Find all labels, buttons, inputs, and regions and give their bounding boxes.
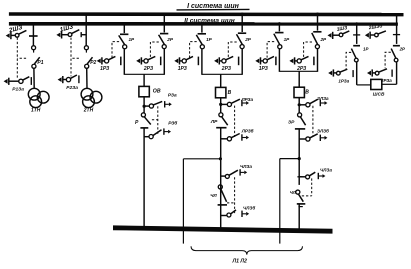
- wire bus II (2nd busbar system): [9, 22, 398, 26]
- junction tick 1ТН bay: [29, 35, 38, 37]
- wire OV bay left drop from bus II: [123, 23, 125, 33]
- earthing switch 1РЗ blade (OV bay): [109, 56, 116, 59]
- svg-text:2РЗ: 2РЗ: [221, 66, 232, 72]
- contact bar OV bay disconnector 1Р: [120, 33, 128, 35]
- wire OV bay join: [124, 73, 164, 75]
- wire line bay L1 to breaker: [220, 74, 222, 87]
- earthing switch ЛРЗа pivot: [227, 102, 231, 106]
- svg-text:ЛРЗб: ЛРЗб: [241, 127, 254, 133]
- ground 2РЗ (OV bay): [136, 59, 140, 64]
- svg-text:ЛРЗа: ЛРЗа: [241, 97, 254, 102]
- svg-text:Р2За: Р2За: [66, 85, 78, 91]
- wire line bay L1 left drop from bus II: [201, 23, 203, 32]
- earthing switch Р1За blade: [23, 77, 30, 80]
- wire 2РЗ ground to pivot (line bay L1): [219, 60, 222, 62]
- wire OV bay to breaker: [143, 74, 145, 86]
- node ЛРЗа junction: [219, 103, 222, 106]
- earthing switch ЗЛЗа blade: [310, 99, 318, 104]
- node OV ES1 junction: [143, 105, 146, 108]
- wire OV bay left lower: [123, 49, 125, 75]
- junction tick ЧЛЗа-2: [297, 176, 302, 178]
- wire 1ШЗ ground to pivot: [62, 34, 68, 36]
- disconnector Р2 blade: [87, 57, 92, 64]
- wire interlock dash 2Р (line bay L2): [304, 42, 312, 58]
- earthing switch РЗа blade: [153, 101, 162, 105]
- wire 1ТН bay drop from bus II: [32, 23, 34, 45]
- wire interlock dash 2ТН bay vertical: [70, 38, 72, 77]
- ground 1ШЗ (ShSV): [328, 33, 332, 38]
- node ЗЛЗа junction: [298, 103, 301, 106]
- earthing switch 1РЗ pivot (line bay L1): [182, 59, 186, 63]
- wire ЛРЗа junction to pivot: [221, 103, 228, 105]
- wire interlock dash 1Р (OV bay): [112, 42, 119, 58]
- node L1 branch junction: [219, 157, 222, 160]
- svg-text:В: В: [228, 90, 232, 96]
- ground ЧЛЗа: [239, 169, 241, 175]
- contact bar ЗР: [295, 128, 305, 130]
- wire L1 chain upper: [220, 98, 222, 113]
- wire interlock dash ЧЛ-2 vertical: [311, 178, 313, 195]
- svg-text:ЗЛЗа: ЗЛЗа: [317, 96, 329, 101]
- earthing switch 1РЗа blade: [340, 69, 347, 72]
- earthing switch 1РЗ pivot (line bay L2): [263, 59, 267, 63]
- wire OV bay right lower: [163, 49, 165, 75]
- earthing switch ЛРЗб blade: [231, 134, 239, 138]
- wire line Л1 outgoing: [182, 159, 184, 244]
- disconnector 1Р blade (OV bay): [119, 35, 125, 44]
- circuit breaker ШСВ: [371, 79, 382, 89]
- ground ЧЛЗб: [241, 211, 243, 217]
- svg-text:Л1 Л2: Л1 Л2: [232, 258, 247, 264]
- contact bar 2ТН bus earthing switch: [80, 32, 82, 37]
- wire 2ШЗб ground to pivot: [370, 34, 374, 36]
- contact bar 1РЗ (line bay L2): [275, 57, 277, 66]
- svg-text:ЧЛЗа: ЧЛЗа: [320, 167, 332, 172]
- svg-text:II система шин: II система шин: [184, 17, 235, 24]
- contact bar line bay L1 disconnector 1Р: [198, 33, 206, 35]
- ground ЧЛЗа-2: [317, 173, 319, 179]
- earthing switch 2РЗ pivot (line bay L1): [222, 59, 226, 63]
- earthing switch 1РЗ pivot (OV bay): [105, 59, 109, 63]
- earthing switch ЧЛЗа pivot: [225, 174, 229, 178]
- wire ЗЛЗб junction to pivot: [299, 138, 305, 140]
- disconnector ЛР blade: [222, 117, 228, 125]
- svg-text:ШСВ: ШСВ: [373, 91, 385, 97]
- svg-text:ЧЛ: ЧЛ: [290, 190, 296, 195]
- wire L2 chain upper: [298, 98, 300, 113]
- ground Р2За: [58, 77, 62, 82]
- earthing switch 2РЗ pivot (OV bay): [144, 59, 148, 63]
- ground 1РЗ (line bay L2): [255, 59, 259, 64]
- junction tick ShSV left bus ES: [353, 34, 360, 36]
- contact bar ЧЛ: [218, 204, 227, 206]
- earthing switch РЗб pivot: [149, 135, 153, 139]
- contact bar 2РЗа: [391, 70, 393, 77]
- wire ЧЛЗа junction to pivot: [221, 175, 226, 177]
- svg-text:1Р: 1Р: [129, 37, 136, 42]
- wire L2 chain lower: [298, 204, 300, 231]
- node ShSV left bus II junction: [355, 22, 358, 25]
- wire line bay L2 right lower: [317, 49, 319, 72]
- ground 2РЗа (ShSV): [367, 71, 371, 76]
- wire 1РЗа ground to pivot: [333, 72, 336, 74]
- disconnector ЧЛ-2 pivot: [296, 190, 300, 194]
- disconnector 2Р blade (OV bay): [159, 35, 165, 45]
- wire 1ТН stem: [33, 68, 35, 88]
- wire 1РЗ ground to pivot (line bay L2): [261, 60, 264, 62]
- disconnector 1Р pivot (line bay L1): [200, 45, 204, 49]
- svg-text:ЗЛЗб: ЗЛЗб: [317, 128, 329, 134]
- disconnector 2Р pivot (line bay L1): [240, 45, 244, 49]
- contact bar 2РЗ (line bay L2): [313, 57, 315, 66]
- circuit breaker ОВ (OV bay): [139, 86, 149, 96]
- contact bar 2РЗ (line bay L1): [238, 57, 240, 66]
- wire interlock dash РЗа-РЗб vertical: [157, 106, 159, 134]
- disconnector ЗР pivot: [298, 113, 302, 117]
- disconnector 1Р pivot (line bay L2): [278, 45, 282, 49]
- earthing switch 1ШЗ blade: [343, 31, 350, 34]
- svg-text:2Р: 2Р: [244, 37, 252, 42]
- wire Р1За ground to pivot: [9, 80, 19, 82]
- ground ЛРЗа: [241, 100, 243, 106]
- ground РЗб: [163, 128, 165, 134]
- node ShSV right bus I junction: [395, 13, 398, 16]
- svg-text:1Р: 1Р: [284, 37, 291, 42]
- disconnector 1Р blade (line bay L2): [274, 34, 280, 45]
- svg-text:ЛР: ЛР: [210, 119, 218, 125]
- contact bar line bay L2 disconnector 1Р: [275, 32, 283, 34]
- svg-text:Р1: Р1: [37, 60, 43, 66]
- earthing switch ЧЛЗа blade: [229, 170, 238, 175]
- wire interlock dash 1Р (ShSV): [346, 52, 351, 69]
- disconnector Р1 pivot: [32, 64, 36, 68]
- earthing switch 2РЗ pivot (line bay L2): [297, 59, 301, 63]
- earthing switch Р2За pivot: [66, 77, 70, 81]
- contact bar line bay L2 disconnector 2Р: [313, 31, 321, 33]
- earthing switch 2ШЗб pivot: [375, 33, 379, 37]
- disconnector ЧЛ pivot: [218, 185, 222, 189]
- node line bay L2 left bus II junction: [278, 22, 281, 25]
- ground 2ШЗб (ShSV): [365, 33, 369, 38]
- earthing switch ЗЛЗа pivot: [306, 103, 310, 107]
- disconnector 2Р blade (ShSV): [391, 49, 396, 59]
- wire РЗб junction to pivot: [144, 136, 149, 138]
- svg-text:РЗб: РЗб: [168, 120, 178, 127]
- wire OV bay right drop from bus I: [163, 14, 165, 33]
- disconnector Р pivot: [141, 113, 145, 117]
- earthing switch 2ШЗб blade: [378, 31, 386, 34]
- earthing switch РЗа pivot: [149, 104, 153, 108]
- wire 2РЗа ground to pivot: [372, 72, 375, 74]
- earthing switch 2РЗа blade: [379, 69, 387, 72]
- wire 2ШЗ ground to pivot: [11, 34, 15, 36]
- contact bar ЛР: [216, 127, 226, 129]
- disconnector 1Р pivot (OV bay): [123, 45, 127, 49]
- svg-text:1РЗ: 1РЗ: [100, 66, 110, 72]
- ground 1ШЗ: [56, 33, 60, 38]
- wire interlock dash ЧЛ stub: [227, 202, 235, 204]
- earthing switch 2РЗа pivot: [375, 71, 379, 75]
- voltage transformer 1ТН: [28, 88, 40, 100]
- earthing switch РЗб blade: [153, 130, 162, 136]
- earthing switch 1РЗ blade (line bay L1): [186, 56, 193, 59]
- ground 1РЗа (ShSV): [328, 71, 332, 76]
- wire interlock dash 1ТН bay vertical: [16, 38, 18, 78]
- svg-text:1РЗ: 1РЗ: [259, 66, 269, 72]
- svg-text:Р1За: Р1За: [12, 87, 24, 93]
- wire line bay L1 join: [202, 73, 242, 75]
- contact bar OV bay disconnector 2Р: [160, 33, 168, 35]
- earthing switch 2РЗ blade (line bay L2): [301, 56, 308, 59]
- label underline I sistema shin: [177, 8, 250, 11]
- wire interlock dash 2Р (ShSV): [385, 52, 391, 68]
- ground Р1За: [4, 79, 8, 84]
- wire ShSV right lower: [396, 62, 398, 84]
- wire L1 chain middle: [220, 128, 222, 229]
- wire interlock dash 2Р (line bay L1): [228, 42, 236, 58]
- earthing switch ЧЛЗб blade: [231, 210, 236, 214]
- disconnector Р blade: [144, 117, 151, 125]
- svg-text:ОВ: ОВ: [153, 89, 161, 95]
- wire Р2За ground to pivot: [63, 79, 67, 81]
- earthing switch 1ШЗ pivot: [68, 33, 72, 37]
- wire L1 branch horizontal: [183, 158, 220, 160]
- earthing switch 2РЗ blade (OV bay): [148, 56, 155, 59]
- junction tick below ЧЛ-2: [298, 206, 302, 208]
- disconnector ЧЛ blade: [221, 189, 227, 202]
- wire line bay L1 right lower: [241, 49, 243, 75]
- wire interlock dash 2ТН bay stub: [71, 57, 79, 59]
- circuit breaker В (line bay L1): [216, 87, 226, 97]
- wire L2 chain middle: [298, 129, 300, 185]
- svg-text:ЧЛЗб: ЧЛЗб: [243, 205, 255, 211]
- earthing switch 1ШЗ pivot: [339, 33, 343, 37]
- wire 1РЗ ground to pivot (OV bay): [102, 60, 105, 62]
- svg-text:В: В: [305, 89, 309, 95]
- node L2 branch junction: [298, 157, 301, 160]
- contact bar ЧЛ-2: [297, 203, 306, 205]
- junction tick ShSV right bus ES: [393, 34, 400, 36]
- ground ЗЛЗа: [319, 100, 321, 106]
- earthing switch Р1За pivot: [19, 79, 23, 83]
- earthing switch 2ШЗ blade: [19, 30, 27, 34]
- node OV bay left bus II junction: [123, 22, 126, 25]
- wire interlock dash 1ТН bay stub: [17, 57, 26, 59]
- svg-text:Р2: Р2: [90, 60, 96, 66]
- svg-text:ЗР: ЗР: [288, 120, 295, 126]
- wire 1ШЗ ground to pivot: [333, 34, 339, 36]
- svg-text:1ТН: 1ТН: [31, 108, 41, 114]
- wire ЧЛЗа-2 junction to pivot: [299, 176, 305, 178]
- disconnector Р2 pivot: [85, 64, 89, 68]
- earthing switch 2РЗ blade (line bay L1): [226, 56, 233, 59]
- contact bar line bay L1 disconnector 2Р: [238, 32, 246, 34]
- circuit breaker В (line bay L2): [294, 87, 304, 97]
- wire 1РЗ ground to pivot (line bay L1): [180, 60, 183, 62]
- earthing switch 2ШЗ pivot: [15, 33, 19, 37]
- wire 2ТН bay drop from bus I: [85, 14, 87, 46]
- svg-text:2Р: 2Р: [166, 37, 174, 42]
- wire 2РЗ ground to pivot (OV bay): [141, 60, 144, 62]
- contact circle 1ТН disconnector: [32, 46, 36, 50]
- ground 1РЗ (OV bay): [97, 59, 101, 64]
- wire line bay L2 right drop from bus I: [317, 14, 319, 31]
- wire interlock dash ЛРЗа-ЛРЗб: [234, 106, 236, 137]
- disconnector 2Р pivot (OV bay): [162, 45, 166, 49]
- disconnector 1Р blade (ShSV): [351, 49, 356, 59]
- brace lines Л1 Л2: [191, 246, 303, 254]
- earthing switch 1РЗ blade (line bay L2): [267, 56, 274, 59]
- earthing switch ЧЛЗа-2 blade: [309, 172, 315, 176]
- earthing switch ЛРЗб pivot: [227, 137, 231, 141]
- voltage transformer 2ТН: [81, 88, 93, 100]
- tick below contact circle 2ТН: [85, 50, 87, 53]
- svg-text:1РЗ: 1РЗ: [178, 66, 188, 72]
- disconnector 2Р blade (line bay L1): [237, 34, 243, 44]
- contact bar 1РЗа: [352, 70, 354, 77]
- earthing switch Р2За blade: [70, 75, 77, 78]
- svg-text:2Р: 2Р: [399, 47, 405, 52]
- ground 2РЗ (line bay L1): [214, 59, 218, 64]
- wire ShSV U-bottom left: [357, 84, 371, 86]
- node OV bay right bus I junction: [163, 13, 166, 16]
- earthing switch 1ШЗ blade: [72, 30, 80, 34]
- wire ЧЛЗб junction to pivot: [221, 215, 227, 217]
- disconnector Р1 blade: [34, 57, 39, 64]
- wire РЗа junction to pivot: [144, 105, 149, 107]
- wire OV chain upper: [143, 97, 145, 113]
- svg-text:РЗа: РЗа: [168, 93, 177, 99]
- wire OV chain to bypass bus: [143, 128, 145, 229]
- earthing switch ЗЛЗб blade: [310, 134, 318, 138]
- wire ЗЛЗа junction to pivot: [299, 104, 306, 106]
- ground 1РЗ (line bay L1): [174, 59, 178, 64]
- ground ЛРЗб: [241, 134, 243, 140]
- disconnector ЧЛ-2 blade: [299, 194, 304, 201]
- wire interlock dash ЗЛЗа-ЗЛЗб: [312, 106, 314, 137]
- svg-text:2Р: 2Р: [320, 37, 328, 42]
- wire line bay L2 to breaker: [298, 71, 300, 87]
- svg-text:1РЗа: 1РЗа: [338, 79, 349, 84]
- contact bar Р2За: [78, 75, 80, 83]
- disconnector 2Р pivot (line bay L2): [315, 45, 319, 49]
- wire ЛРЗб junction to pivot: [221, 138, 228, 140]
- wire interlock dash 1Р (line bay L1): [190, 42, 197, 58]
- contact bar 1РЗ (OV bay): [120, 57, 122, 66]
- earthing switch 1РЗа pivot: [336, 71, 340, 75]
- ground РЗа: [164, 101, 166, 107]
- wire 2РЗ ground to pivot (line bay L2): [295, 60, 298, 62]
- wire bypass bus (bottom): [113, 225, 333, 233]
- svg-text:2ТН: 2ТН: [83, 108, 94, 114]
- wire line bay L2 left drop from bus II: [278, 23, 280, 31]
- wire line bay L1 left lower: [201, 49, 203, 75]
- wire line bay L2 join: [279, 70, 317, 72]
- wire 2ТН stem: [86, 68, 88, 88]
- wire line Л2 outgoing: [279, 159, 281, 244]
- wire bus I (1st busbar system): [9, 12, 404, 16]
- tick below contact circle 1ТН: [33, 50, 35, 53]
- node 2ТН bay bus junction: [85, 13, 88, 16]
- earthing switch ЧЛЗа-2 pivot: [306, 175, 310, 179]
- svg-text:ЧЛЗа: ЧЛЗа: [240, 164, 252, 169]
- contact bar Р1За: [30, 77, 32, 85]
- wire ShSV left lower: [356, 62, 358, 85]
- wire interlock dash 2Р (OV bay): [150, 42, 158, 58]
- ground 2ШЗ: [6, 33, 10, 38]
- wire interlock dash 1Р (line bay L2): [267, 42, 274, 58]
- svg-text:1Р: 1Р: [363, 47, 368, 52]
- svg-text:ЧЛ: ЧЛ: [210, 193, 217, 198]
- ground 2РЗ (line bay L2): [289, 59, 293, 64]
- disconnector ЗР blade: [300, 117, 305, 125]
- wire ShSV U-bottom right: [382, 83, 397, 85]
- wire L2 branch horizontal: [280, 158, 299, 160]
- contact bar 1РЗ (line bay L1): [197, 57, 199, 66]
- earthing switch ЛРЗа blade: [231, 99, 240, 103]
- disconnector 2Р pivot (ShSV): [394, 58, 398, 62]
- disconnector 1Р pivot (ShSV): [354, 58, 358, 62]
- node line bay L1 right bus I junction: [241, 13, 244, 16]
- wire line bay L1 right drop from bus I: [241, 14, 243, 32]
- wire line bay L2 left lower: [278, 49, 280, 72]
- disconnector ЛР pivot: [219, 113, 223, 117]
- wire ShSV right drop from bus I: [396, 14, 398, 44]
- earthing switch ЧЛЗб pivot: [227, 213, 231, 217]
- contact bar Р: [140, 127, 148, 129]
- contact circle 2ТН disconnector: [84, 46, 88, 50]
- contact bar 1Р (ShSV): [353, 45, 360, 47]
- wire 2ТН bus earthing switch stub: [81, 34, 86, 36]
- contact bar 2РЗ (OV bay): [160, 57, 162, 66]
- svg-text:2РЗ: 2РЗ: [143, 66, 154, 72]
- node 1ТН bay bus junction: [32, 22, 35, 25]
- node line bay L1 left bus II junction: [200, 22, 203, 25]
- disconnector 2Р blade (line bay L2): [312, 33, 318, 45]
- contact bar 2Р (ShSV): [393, 45, 400, 47]
- wire ShSV left drop from bus II: [356, 24, 358, 44]
- disconnector 1Р blade (line bay L1): [196, 35, 202, 45]
- earthing switch ЗЛЗб pivot: [306, 137, 310, 141]
- ground ЗЛЗб: [319, 135, 321, 141]
- wire interlock dash Р stub: [152, 119, 158, 121]
- wire interlock dash ЧЛЗа-ЧЛЗб: [234, 177, 236, 213]
- node line bay L2 right bus I junction: [316, 13, 319, 16]
- svg-text:1Р: 1Р: [206, 37, 213, 42]
- wire interlock dash ЧЛ-2 stub: [302, 195, 312, 197]
